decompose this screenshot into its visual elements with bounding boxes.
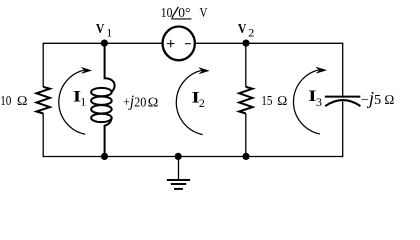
svg-text:V: V — [238, 22, 247, 37]
inductor L wire top lead and entry hook — [105, 43, 115, 92]
svg-text:Ω: Ω — [17, 93, 28, 108]
svg-text:10: 10 — [161, 5, 173, 20]
wire: middle branch top lead — [245, 43, 247, 87]
svg-text:2: 2 — [248, 26, 254, 40]
svg-text:−j5: −j5 — [361, 88, 382, 108]
inductor ring 4 — [91, 114, 112, 122]
mesh current I1 arc — [59, 70, 88, 135]
wire: middle branch bottom lead — [245, 113, 247, 157]
wire: right branch top lead — [342, 43, 344, 97]
wire: top rail right of source — [195, 42, 343, 44]
svg-text:Ω: Ω — [384, 92, 394, 107]
minus sign — [185, 43, 191, 45]
wire: right branch bottom lead — [342, 102, 344, 158]
svg-text:3: 3 — [316, 95, 322, 109]
svg-text:V: V — [96, 22, 105, 37]
ground bar 3 — [174, 188, 183, 190]
node dot: 15 ohm branch bottom — [242, 153, 249, 160]
wire: left branch bottom lead — [42, 113, 44, 157]
node dot: ground junction — [175, 153, 182, 160]
capacitor C top plate — [325, 96, 360, 98]
ground stem — [178, 157, 180, 180]
svg-text:Ω: Ω — [148, 94, 159, 109]
mesh current I1 arrowhead — [81, 67, 91, 73]
svg-text:0°: 0° — [178, 5, 190, 20]
node V1 dot — [101, 40, 108, 47]
wire: bottom rail — [43, 156, 343, 158]
inductor ring 2 — [91, 97, 112, 105]
svg-text:2: 2 — [199, 96, 205, 110]
wire: top rail left of source — [43, 42, 163, 44]
angle slash — [172, 7, 179, 18]
angle underline — [171, 18, 191, 20]
capacitor C curved plate — [325, 100, 360, 106]
resistor R2 15 ohm zigzag — [239, 87, 252, 114]
ground bar 2 — [171, 183, 186, 185]
svg-text:1: 1 — [80, 95, 86, 109]
svg-text:V: V — [200, 5, 208, 20]
svg-text:+j20: +j20 — [123, 91, 147, 110]
node dot: inductor bottom — [101, 153, 108, 160]
inductor exit hook and bottom lead — [105, 118, 112, 157]
svg-text:Ω: Ω — [277, 93, 288, 108]
svg-text:10: 10 — [0, 93, 11, 108]
inductor ring 3 — [91, 105, 112, 113]
svg-text:1: 1 — [106, 26, 112, 40]
inductor ring 1 — [91, 88, 112, 96]
plus sign — [167, 40, 175, 48]
mesh current I3 arc and arrowhead — [293, 67, 325, 134]
svg-text:15: 15 — [261, 93, 272, 108]
voltage source U1 circle — [163, 27, 195, 61]
mesh current I2 arc and arrowhead — [176, 68, 208, 135]
ground bar 1 — [167, 179, 190, 181]
node V2 dot — [242, 40, 249, 47]
resistor R1 10 ohm zigzag — [37, 87, 50, 114]
wire: left branch top lead — [42, 43, 44, 87]
